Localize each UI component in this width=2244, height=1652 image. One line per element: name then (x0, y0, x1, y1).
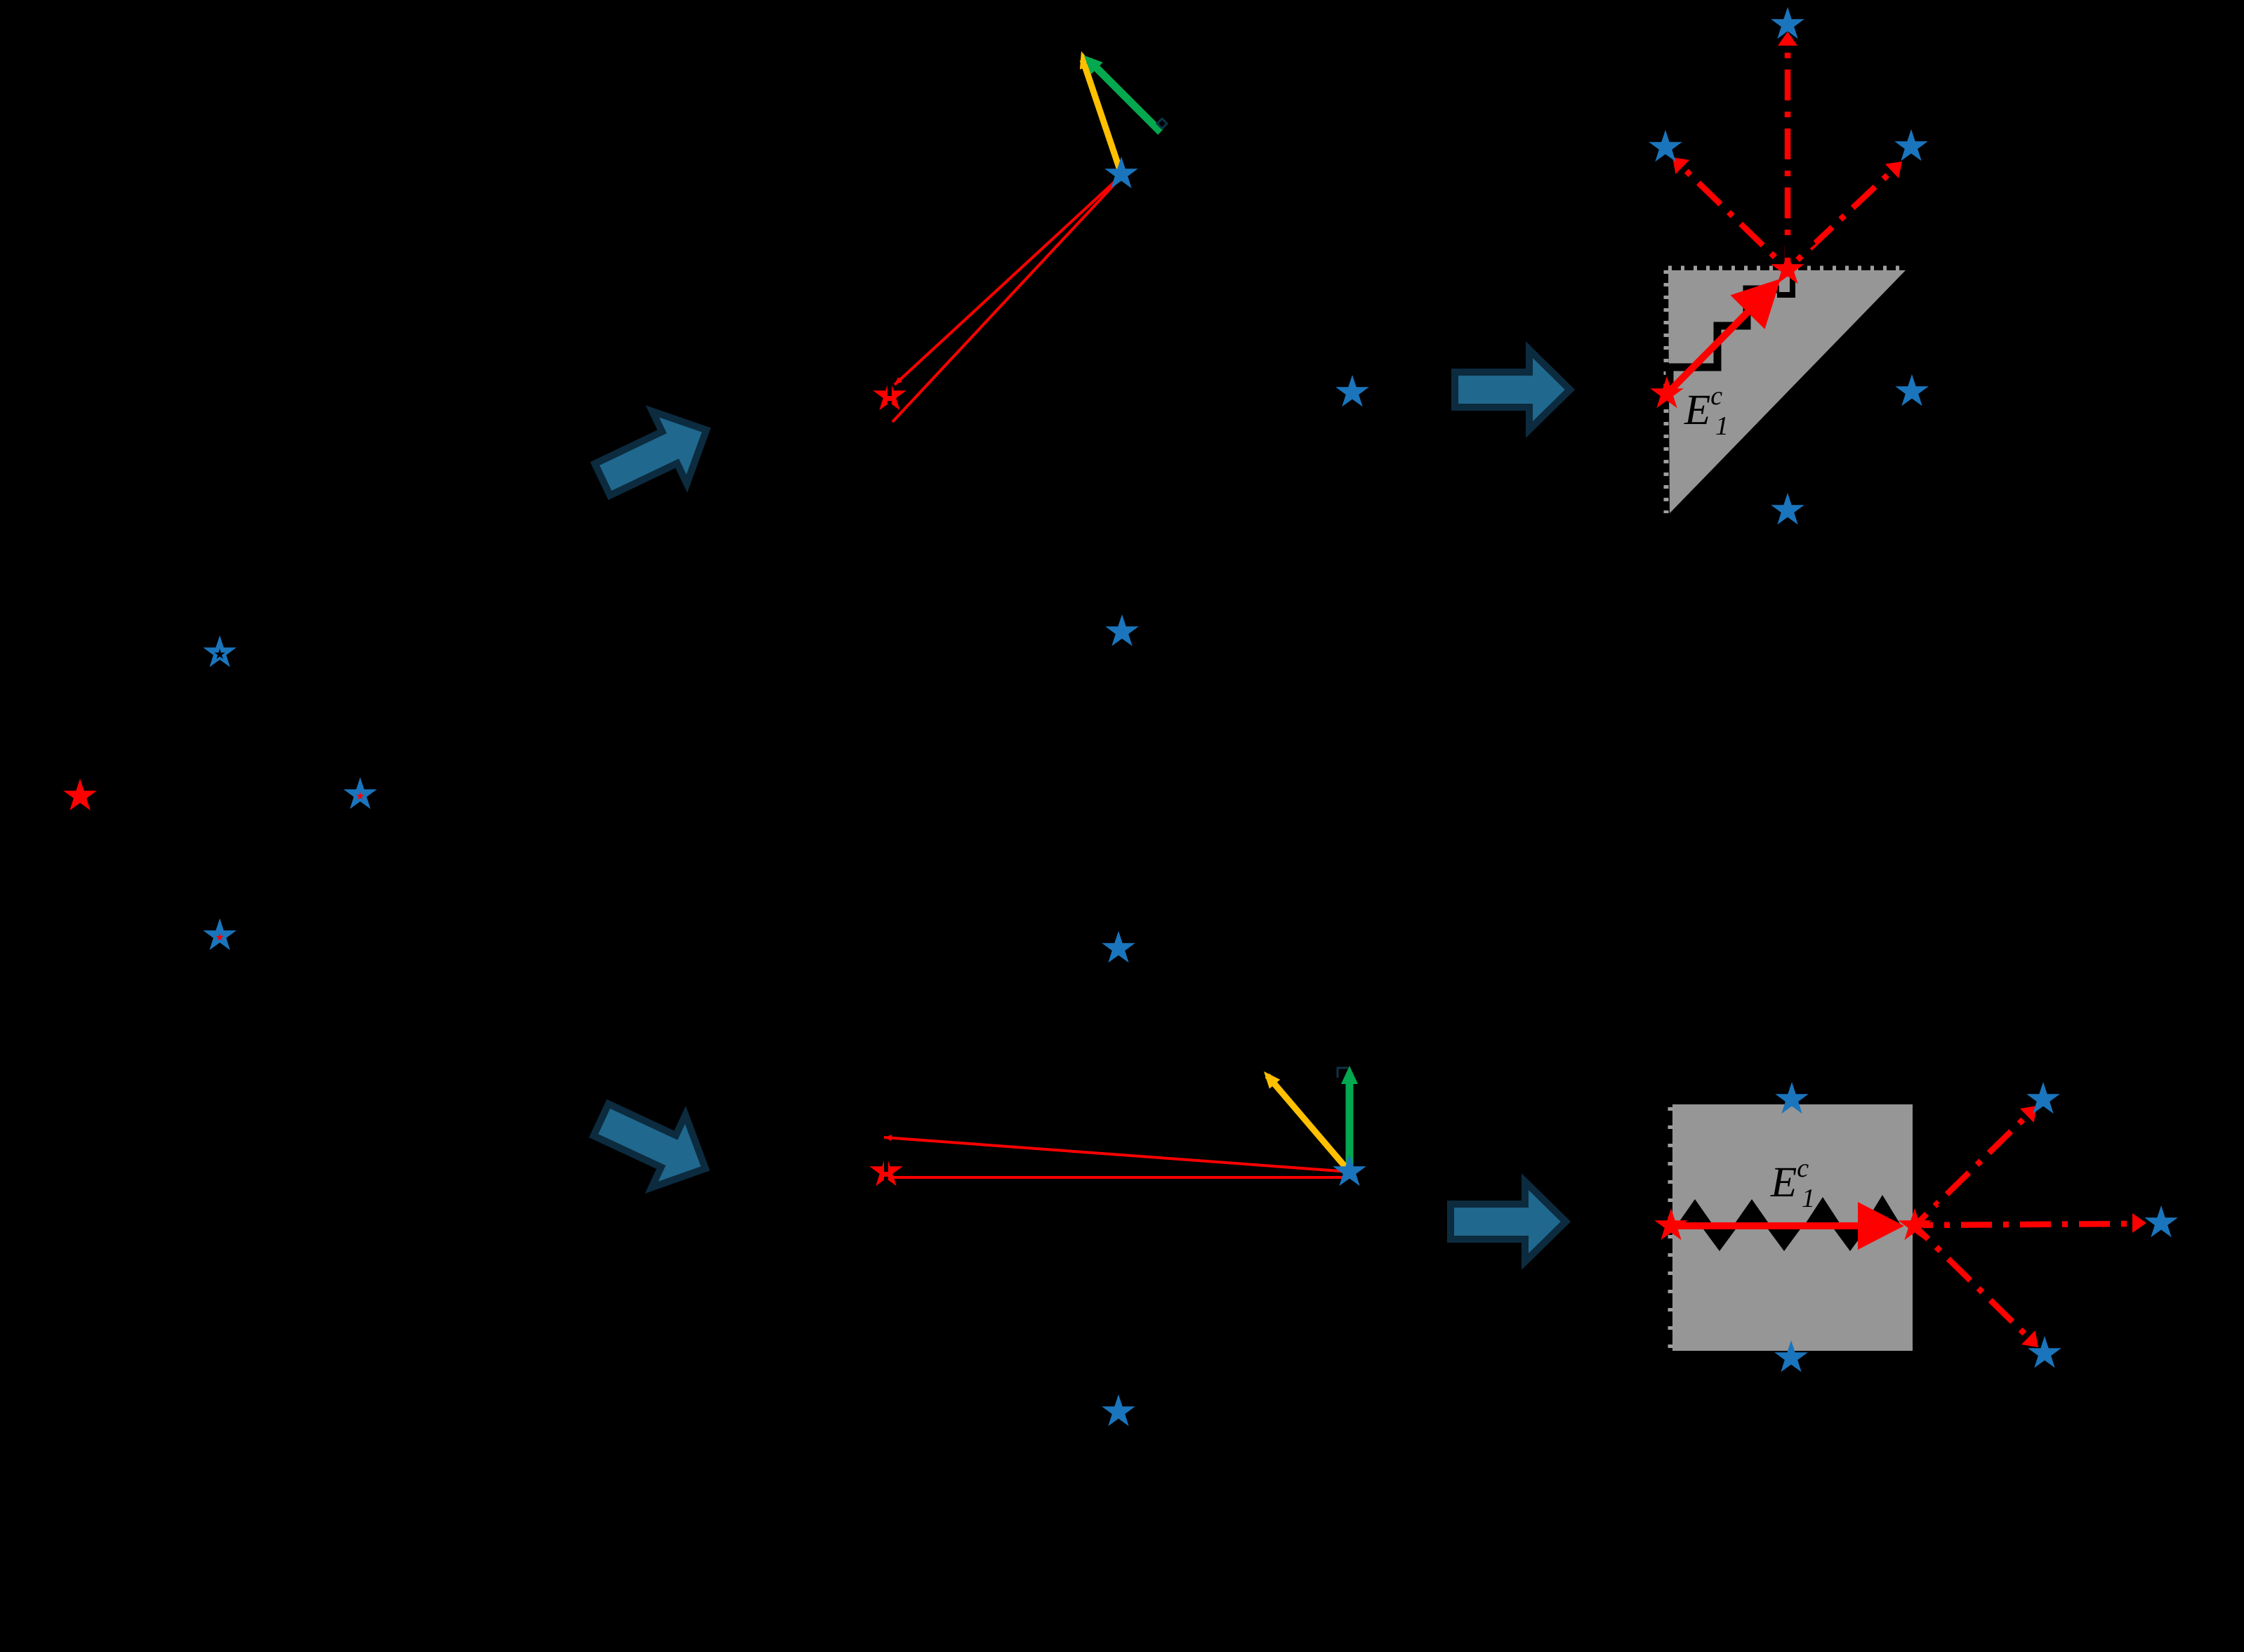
panel3 blue star T4 (1895, 374, 1929, 406)
panel4 dash-dot red arrow right (1922, 1224, 2132, 1225)
panel2 blue star E2 (1102, 1394, 1135, 1426)
panel2 red star B with black arrow overlay (873, 378, 906, 410)
panel4 red star R4 (1898, 1208, 1932, 1240)
panel2 blue star C (1335, 375, 1369, 407)
green arrow E^u at star G (1346, 1081, 1354, 1170)
panel4 blue star U3 (2026, 1082, 2060, 1114)
panel3 dash-dot red arrow up (1785, 47, 1791, 263)
panel1 blue star S1 with inner black star (203, 635, 237, 667)
fat blue arrow 4 (to panel4) (1451, 1182, 1566, 1262)
panel4 blue star U5 (2028, 1336, 2061, 1368)
panel4 dashed border left (1668, 1107, 1673, 1348)
panel3 black overlay on vertical arrow (1785, 239, 1791, 258)
panel3 blue star T2 (1649, 130, 1682, 161)
panel3 grey triangle E1c region (1668, 270, 1906, 513)
panel3 red star R1 at staircase start (1650, 376, 1684, 408)
panel4 dash-dot red arrow down-right (1920, 1231, 2028, 1337)
panel3 red star R2 at convergence (1771, 252, 1804, 284)
panel4 red star R3 (1654, 1208, 1688, 1240)
panel3 black staircase (pseudo-orbit) (1670, 289, 1779, 392)
panel3 blue star T5 (1771, 493, 1804, 524)
thin red arrow d (blue star G to red star F) (893, 1176, 1346, 1179)
panel4 blue star U2 (1774, 1340, 1808, 1372)
panel3 blue star T1 (1771, 7, 1804, 39)
panel3 thick red arrow (1664, 279, 1781, 397)
yellow arrow f(v) at star A (1083, 60, 1120, 170)
right-angle marker near green arrow head (panel2 bottom) (1338, 1068, 1348, 1078)
fat blue arrow 2 (to panel2 bottom) (584, 1083, 722, 1205)
panel3 dash-dot red arrow up-left (1682, 167, 1781, 263)
svg-text:Ec1: Ec1 (1770, 1154, 1815, 1213)
panel1 red star S2 (63, 779, 97, 810)
panel1 blue star S3 with inner red star (343, 777, 377, 809)
panel4 black overlay on up-right arrow (1938, 1198, 1948, 1208)
panel4 blue star U1 (1775, 1082, 1809, 1114)
panel3 blue star T3 (1894, 129, 1928, 161)
thin red arrow a (blue star A to red star B) (895, 176, 1121, 385)
panel4 black sawtooth (pseudo-orbit) (1675, 1199, 1715, 1227)
panel4 dash-dot red arrow up-right (1920, 1116, 2027, 1221)
panel2 red star F with black arrow overlay (869, 1154, 903, 1186)
panel2 blue star G (1333, 1154, 1366, 1186)
fat blue arrow 3 (to panel3) (1455, 350, 1570, 430)
panel4 thick red arrow (1671, 1202, 1904, 1250)
panel3 dashed border left (1664, 270, 1669, 513)
panel4 blue star U4 (2144, 1205, 2178, 1237)
yellow arrow f(v) at star G (1267, 1076, 1349, 1172)
panel4 grey square E1c region (1672, 1104, 1913, 1351)
thin red arrow b (blue star A to below red star B) (892, 177, 1121, 422)
panel2 blue star A (1104, 157, 1138, 188)
fat blue arrow 1 (to panel2 top) (585, 394, 723, 515)
right-angle marker near green arrow tail (panel2 top) (1157, 119, 1167, 128)
panel3 black overlay on up-right arrow (1804, 239, 1816, 251)
green arrow E^u at star A (1089, 60, 1161, 132)
panel2 blue star E1 (1102, 931, 1135, 963)
thin red arrow c (blue star G to above red star F) (884, 1137, 1349, 1172)
svg-text:Ec1: Ec1 (1684, 381, 1729, 441)
panel2 blue star D (1105, 614, 1139, 646)
panel3 dash-dot red arrow up-right (1794, 171, 1892, 263)
panel1 blue star S4 with inner red star (203, 918, 237, 950)
panel3 dashed border top (1668, 266, 1906, 271)
